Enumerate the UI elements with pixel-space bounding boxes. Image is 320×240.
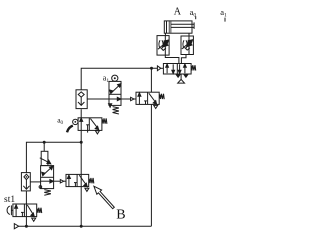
label a1 (extended position) (220, 7, 227, 18)
relay valve right box arrow (149, 93, 157, 104)
position tick a1 (224, 18, 226, 22)
svg-text:A: A (174, 6, 182, 17)
delay valve pilot box (40, 151, 51, 165)
valve a1 top box arrow (110, 84, 121, 94)
svg-text:a1: a1 (103, 73, 110, 84)
valve B left box blocked port (74, 183, 77, 187)
check valve lower (in box) (21, 173, 30, 191)
wire bus to delay valve pilot (43, 142, 45, 151)
wire cylinder right port (188, 33, 190, 36)
wire flow-control-right to valve port B (181, 55, 186, 64)
valve B right box arrow (79, 175, 87, 187)
wire check valve upper to valve a0 (80, 109, 82, 118)
valve a1 return spring (113, 107, 119, 114)
wire cylinder left port (164, 33, 166, 36)
wire delay valve output to valve B (54, 180, 61, 182)
valve a0 left box blocked port (86, 125, 89, 133)
wire valve st to bottom bus (25, 217, 27, 227)
relay valve body (3/2) (136, 92, 159, 104)
roller actuator of valve a1 (112, 75, 118, 82)
label a0 (retracted position) (190, 7, 197, 18)
5/2 valve right return spring (191, 65, 196, 71)
delay valve exhaust port circle (39, 186, 42, 189)
node junction on pilot line (150, 67, 153, 70)
wire pilot line top (a1 signal to 5/2) (81, 68, 157, 90)
wire bottom supply bus (19, 225, 152, 227)
wire valve B down to bottom bus (80, 187, 82, 227)
node junction valve B on bus (80, 225, 83, 228)
valve st push button (7, 205, 13, 215)
wire check valve lower side outlet to delay valve (30, 181, 40, 183)
wire junction down to relay valve (150, 68, 152, 92)
check valve upper (in box) (76, 90, 87, 109)
valve B left box arrow (67, 175, 70, 187)
cylinder A body (164, 21, 192, 33)
valve st body (3/2 push button) (13, 204, 37, 217)
pilot triangle at valve B input (60, 180, 66, 183)
valve a0 left box arrow (through line) (80, 118, 83, 131)
wire check valve lower to valve st (25, 191, 27, 204)
svg-text:B: B (116, 208, 125, 223)
wire check valve upper to valve a1 input (87, 98, 109, 100)
valve a1 exhaust arrow (109, 104, 112, 108)
svg-text:a0: a0 (57, 116, 63, 127)
valve st left box blocked port (21, 212, 24, 216)
wire signal bus horizontal (26, 142, 81, 172)
relay valve left box arrow (138, 93, 141, 105)
label a0 (roller valve) (57, 116, 63, 127)
cylinder A piston rod (171, 22, 194, 29)
wire valve a1 output to relay pilot (121, 98, 131, 100)
svg-text:a1: a1 (220, 7, 227, 18)
compressed air source triangle (14, 224, 18, 229)
valve a0 exhaust triangle (95, 131, 99, 134)
5/2 directional valve U1 body (163, 64, 191, 75)
roller actuator of valve a0 (67, 119, 78, 132)
node junction st on bus (25, 225, 28, 228)
node junction supply rail (80, 141, 83, 144)
valve a0 return spring (102, 118, 107, 124)
relay valve return spring (159, 94, 164, 100)
label a1 (roller valve) (103, 73, 110, 84)
position tick a0 (195, 16, 197, 19)
delay valve bottom box flow arrow (41, 180, 54, 183)
wire flow-control-left to valve port A (165, 55, 179, 63)
5/2 valve supply port triangle (178, 74, 185, 83)
5/2 valve exhaust arrow right (184, 74, 188, 77)
flow control valve left (one-way throttle) (157, 36, 169, 56)
valve a1 body (3/2 roller valve) (109, 81, 121, 105)
valve B exhaust triangle (85, 188, 89, 191)
valve B body (3/2) (66, 174, 89, 186)
valve B return spring (89, 178, 94, 184)
flow control valve right (one-way throttle) (181, 36, 193, 55)
pilot triangle at relay valve (131, 97, 136, 100)
delay valve body (41, 166, 54, 189)
label A (cylinder name) (174, 6, 182, 17)
node junction delay pilot (43, 141, 46, 144)
5/2 valve left pilot triangle (157, 66, 163, 71)
wire relay valve through line to bottom bus (150, 104, 152, 226)
annotation arrow to valve B (94, 186, 114, 209)
label B (116, 208, 125, 223)
wire valve st through line (25, 204, 27, 217)
5/2 valve exhaust arrow left (176, 74, 180, 77)
valve st right box arrow (27, 205, 34, 217)
relay valve exhaust triangle (154, 105, 158, 108)
valve a0 right box arrow (90, 119, 98, 130)
cylinder A piston (169, 21, 171, 33)
5/2 valve right box arrows (178, 64, 186, 74)
delay valve return spring (44, 190, 51, 196)
valve st exhaust triangle (32, 218, 36, 221)
wire valve B through line (80, 174, 82, 186)
delay valve top box arrow (42, 166, 53, 176)
5/2 valve left box arrows (166, 64, 175, 74)
valve a1 bottom box flow arrow (109, 97, 121, 100)
relay valve left box blocked port (144, 101, 147, 105)
valve a0 body (3/2 roller valve) (78, 118, 102, 131)
valve st return spring (37, 207, 42, 213)
wire valve a0 to bus junction (80, 130, 82, 142)
valve st left box arrow (15, 205, 18, 217)
label st1 (4, 195, 15, 205)
wire supply rail down to valve B (80, 142, 82, 174)
